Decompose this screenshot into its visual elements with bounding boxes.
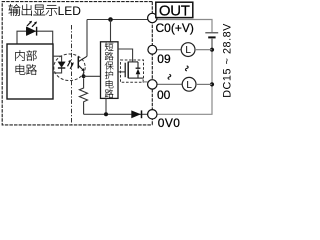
unit outline border xyxy=(2,2,152,125)
wire 00 to load L2 xyxy=(157,83,182,85)
terminal C0 xyxy=(148,13,157,22)
wire rail to protection box xyxy=(110,20,112,42)
external wire C0 to battery xyxy=(157,20,212,33)
svg-text:09: 09 xyxy=(157,52,171,66)
wire emitter to protection box xyxy=(84,75,101,77)
resistor R1 xyxy=(79,78,87,114)
terminal 00 xyxy=(148,80,157,89)
battery BT1 xyxy=(205,32,218,34)
OUT tag box xyxy=(156,2,193,17)
wire gate from protection box xyxy=(118,71,125,73)
wire 09 to load L1 xyxy=(157,49,181,51)
terminal 0V0 xyxy=(148,110,157,119)
LED indicator D1 wires xyxy=(17,31,53,44)
opto LED wires xyxy=(53,56,62,73)
optocoupler enclosure xyxy=(54,54,85,81)
svg-text:00: 00 xyxy=(157,88,171,102)
internal circuit box 内部电路 xyxy=(7,44,53,99)
node: emitter junction xyxy=(82,74,86,78)
wire protection box bottom to 0V rail xyxy=(105,98,107,114)
node on 0V rail xyxy=(104,112,108,116)
wire source to terminal 00 xyxy=(143,78,148,82)
node load2 xyxy=(210,82,214,86)
load L1 xyxy=(181,43,195,57)
node battery/load1 xyxy=(210,48,214,52)
svg-text:C0(+V): C0(+V) xyxy=(156,21,194,35)
LED emission arrows xyxy=(27,21,37,27)
external negative rail xyxy=(157,50,212,115)
short-circuit protection box 短路保护电路 xyxy=(101,42,119,99)
load L2 xyxy=(182,77,196,91)
continuation squiggle 1 xyxy=(168,74,171,79)
terminal 09 xyxy=(148,45,157,54)
MOSFET enclosure (dashed) xyxy=(121,60,144,82)
svg-text:L: L xyxy=(185,45,191,56)
label 输出显示LED xyxy=(9,4,58,16)
svg-text:DC15 ~ 28.8V: DC15 ~ 28.8V xyxy=(221,23,233,98)
unit right edge through terminals xyxy=(151,2,153,125)
bottom 0V rail wire xyxy=(84,113,148,115)
top rail wire xyxy=(87,19,148,21)
diode D2 on 0V rail xyxy=(131,110,141,118)
continuation squiggle 2 xyxy=(185,66,188,71)
MOSFET body diode xyxy=(137,62,139,68)
opto light arrows xyxy=(68,60,74,69)
opto LED xyxy=(58,62,65,68)
svg-text:L: L xyxy=(186,80,192,91)
svg-text:LED: LED xyxy=(58,4,82,18)
MOSFET Q2 xyxy=(124,63,126,77)
emitter lead xyxy=(83,71,85,77)
wire drain to protection box xyxy=(118,49,133,62)
collector riser xyxy=(86,20,88,57)
phototransistor Q1 xyxy=(77,57,79,69)
svg-text:0V0: 0V0 xyxy=(158,116,181,130)
boundary dash-dot line xyxy=(71,25,73,125)
LED indicator D1 xyxy=(26,27,35,36)
node on top rail xyxy=(108,17,113,22)
svg-text:OUT: OUT xyxy=(159,3,190,20)
